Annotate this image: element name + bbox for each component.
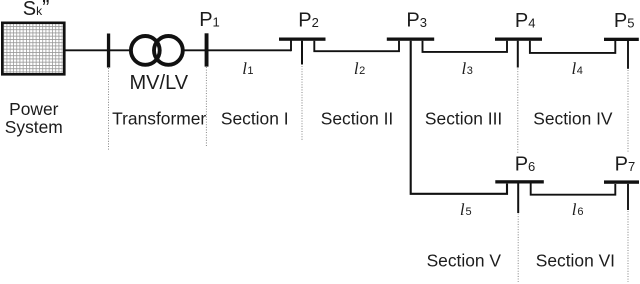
power system box <box>2 23 64 75</box>
svg-text:l: l <box>572 200 577 219</box>
wire: power system to P2 riser <box>65 49 291 51</box>
svg-text:l: l <box>460 200 465 219</box>
riser into P2 <box>290 41 292 52</box>
svg-text:6: 6 <box>577 206 583 218</box>
stub under P7 <box>627 184 629 210</box>
wire P3 to P4 <box>423 41 508 52</box>
busbar P1 <box>205 33 209 66</box>
busbar P7 <box>604 180 639 183</box>
dotted separator under P1 <box>205 67 207 146</box>
stub under P6 <box>517 184 519 214</box>
svg-text:Section V: Section V <box>427 251 502 271</box>
svg-text:Section I: Section I <box>221 109 289 129</box>
dotted separator under P7 <box>627 211 629 282</box>
svg-text:2: 2 <box>359 65 365 77</box>
busbar P2 <box>279 38 326 41</box>
wire P4 to P5 <box>530 41 615 53</box>
svg-text:MV/LV: MV/LV <box>130 72 189 94</box>
dotted separator under P5 <box>627 70 629 152</box>
svg-text:1: 1 <box>247 65 253 77</box>
busbar P4 <box>495 38 542 41</box>
busbar P5 <box>604 38 639 41</box>
wire P6 to P7 <box>531 184 616 195</box>
svg-text:3: 3 <box>467 65 473 77</box>
wire P2 to P3 <box>314 41 399 52</box>
dotted separator under tick <box>108 68 110 150</box>
svg-text:Sk”: Sk” <box>23 0 50 21</box>
branch line P3 down and to P6 <box>411 41 507 194</box>
transformer T (two circles) <box>131 36 160 65</box>
stub under P5 <box>627 41 629 69</box>
svg-text:Section III: Section III <box>425 109 502 129</box>
svg-text:4: 4 <box>577 65 583 77</box>
svg-text:Power: Power <box>9 99 59 119</box>
dotted separator under P2 <box>301 66 303 141</box>
stub under P4 <box>517 41 519 68</box>
svg-text:Transformer: Transformer <box>112 109 206 129</box>
svg-text:5: 5 <box>466 206 472 218</box>
svg-text:Section II: Section II <box>321 109 394 129</box>
svg-text:Section IV: Section IV <box>533 109 613 129</box>
busbar P3 <box>387 38 434 41</box>
tick between power system and transformer <box>107 34 110 68</box>
dotted separator under P6 <box>517 214 519 283</box>
svg-text:Section VI: Section VI <box>536 251 615 271</box>
stub under P2 <box>301 41 303 65</box>
svg-text:System: System <box>5 117 63 137</box>
dotted separator under P4 <box>517 69 519 154</box>
busbar P6 <box>495 180 544 183</box>
